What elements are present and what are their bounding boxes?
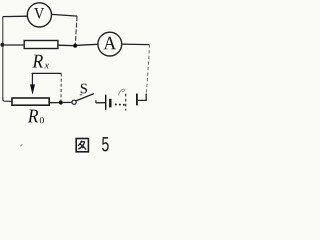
voltmeter V [27,3,51,27]
label R0 [28,110,44,124]
annotation squiggle above battery [119,89,125,95]
caption: figure number 5 [102,137,109,151]
rheostat R0 (box) [12,98,49,105]
caption: hand-drawn 图 glyph [76,139,88,152]
wire: top row into voltmeter [3,15,28,17]
battery plate (short thick, left cell) [109,99,111,108]
wire: wiper vertical (dashed in scan) [60,73,62,100]
wire: R_x to junction [59,44,76,47]
wire: junction to ammeter [77,44,98,45]
battery ellipsis dots [115,104,117,106]
switch pivot [72,100,76,104]
label S [81,84,87,94]
battery dashed continuation plate [125,94,127,111]
ammeter A [98,32,122,56]
wire: left vertical bus [2,17,4,99]
resistor R_x (box) [24,41,58,49]
wire: voltmeter right to corner [52,14,77,16]
node: rheostat wiper junction [59,100,63,104]
stray mark [21,144,23,146]
node: R_x / ammeter / voltmeter junction [73,44,77,48]
wire: junction to R0 [50,102,59,104]
wire: switch to junction [63,101,72,103]
switch S [72,84,96,105]
wire: wiper horizontal [32,72,62,74]
rheostat wiper arrow [30,73,35,94]
battery plate (long, right cell) [136,94,138,106]
wire: bottom-left corner into R0 [3,98,13,102]
node: left terminal junction [0,43,4,47]
wire: vertical from V loop down to junction [75,16,77,45]
switch blade [76,94,94,101]
wire: right bottom corner [138,94,147,101]
battery plate (long, left cell) [105,95,107,110]
battery pack [106,89,137,111]
wire: ammeter to right corner [122,43,149,45]
wire: battery to switch contact [96,102,106,104]
wire: right vertical bus (faint in scan) [146,45,149,94]
wire: R_x row left segment [5,44,25,46]
label R_x [32,55,48,69]
